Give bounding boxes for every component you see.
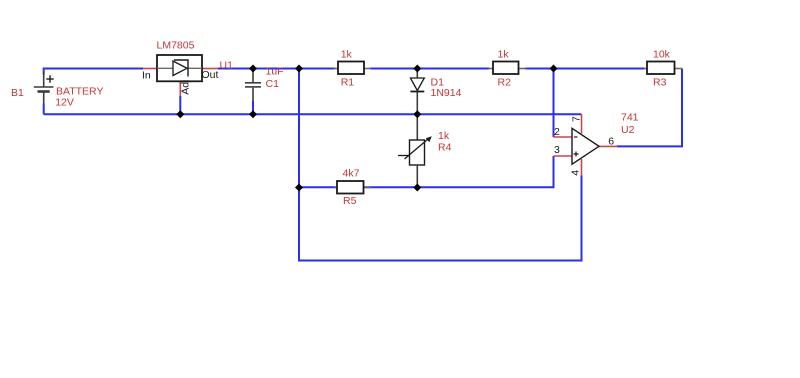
junction R4 bottom: [413, 184, 421, 192]
junction left loop top: [295, 65, 303, 73]
svg-text:R3: R3: [653, 77, 667, 89]
potentiometer R4: [416, 114, 418, 140]
svg-text:3: 3: [554, 144, 560, 156]
wire U1 out to R1: [218, 68, 336, 70]
op-amp U2 pin 6 stub: [599, 145, 617, 147]
resistor R5: [334, 187, 337, 189]
junction D1 top: [413, 65, 421, 73]
wire C1 bottom: [252, 101, 254, 114]
wire R3 right corner down to opamp output: [617, 69, 682, 147]
junction D1 bottom: [413, 110, 421, 118]
junction R5 left: [295, 184, 303, 192]
svg-text:B1: B1: [11, 87, 24, 99]
svg-text:Out: Out: [202, 69, 219, 81]
regulator U1 LM7805 body: [157, 55, 202, 81]
svg-text:741: 741: [621, 112, 639, 124]
svg-text:12V: 12V: [55, 97, 74, 109]
regulator U1 internal diode triangle: [173, 61, 187, 76]
svg-text:U1: U1: [220, 60, 234, 72]
wire left loop node down through R5 node to bottom loop to pin4: [299, 69, 582, 261]
resistor R1: [334, 68, 339, 70]
svg-text:4: 4: [570, 170, 582, 176]
resistor R3: [644, 68, 647, 70]
capacitor C1: [245, 69, 261, 102]
op-amp U2 minus sign: [574, 136, 578, 138]
regulator U1 internal cathode bar: [174, 60, 188, 77]
op-amp U2 pin 4 stub: [581, 159, 583, 176]
svg-text:1k: 1k: [498, 49, 510, 61]
wire node R2R3 down to pin2: [553, 69, 555, 138]
battery plus sign: [46, 75, 53, 82]
diode D1: [416, 69, 418, 78]
op-amp U2 pin 2 stub: [554, 136, 573, 138]
svg-text:Adj: Adj: [179, 80, 191, 95]
svg-text:LM7805: LM7805: [157, 40, 195, 52]
resistor R2: [489, 68, 494, 70]
svg-text:R5: R5: [343, 195, 357, 207]
wire R1 to R2: [370, 68, 489, 70]
svg-text:6: 6: [608, 135, 614, 147]
regulator U1 LM7805 pin In stub: [143, 68, 157, 70]
junction C1 top: [249, 65, 257, 73]
svg-text:4k7: 4k7: [343, 168, 360, 180]
wire R5 line to pin3: [299, 156, 554, 187]
potentiometer R4 wiper line: [398, 155, 410, 157]
wire bottom rail: [44, 113, 582, 115]
wire Adj to bottom rail: [179, 96, 181, 114]
svg-text:1k: 1k: [341, 49, 353, 61]
junction C1 bottom: [249, 110, 257, 118]
svg-text:1k: 1k: [438, 130, 450, 142]
svg-text:C1: C1: [266, 78, 280, 90]
wire R2 to R3: [526, 68, 645, 70]
battery B1: [34, 72, 54, 105]
regulator U1 internal line: [157, 67, 202, 69]
svg-text:10k: 10k: [653, 49, 671, 61]
svg-text:1uF: 1uF: [266, 66, 284, 78]
svg-text:2: 2: [554, 126, 560, 138]
potentiometer R4 arrow: [405, 138, 430, 159]
junction R2R3: [550, 65, 558, 73]
op-amp U2 pin 7 stub: [581, 114, 583, 133]
regulator U1 LM7805 pin Out stub: [202, 68, 218, 70]
svg-text:7: 7: [570, 116, 582, 122]
junction Adj bottom: [176, 110, 184, 118]
op-amp U2 pin 3 stub: [554, 155, 573, 157]
svg-text:R4: R4: [438, 142, 452, 154]
svg-text:In: In: [142, 69, 151, 81]
regulator U1 LM7805 pin Adj stub: [179, 81, 181, 96]
svg-text:1N914: 1N914: [431, 87, 462, 99]
op-amp U2 triangle: [572, 128, 599, 164]
svg-text:R2: R2: [498, 77, 512, 89]
op-amp U2 plus sign: [574, 152, 579, 157]
svg-text:R1: R1: [341, 77, 355, 89]
svg-text:U2: U2: [621, 124, 635, 136]
wire top rail battery to U1: [44, 69, 143, 75]
